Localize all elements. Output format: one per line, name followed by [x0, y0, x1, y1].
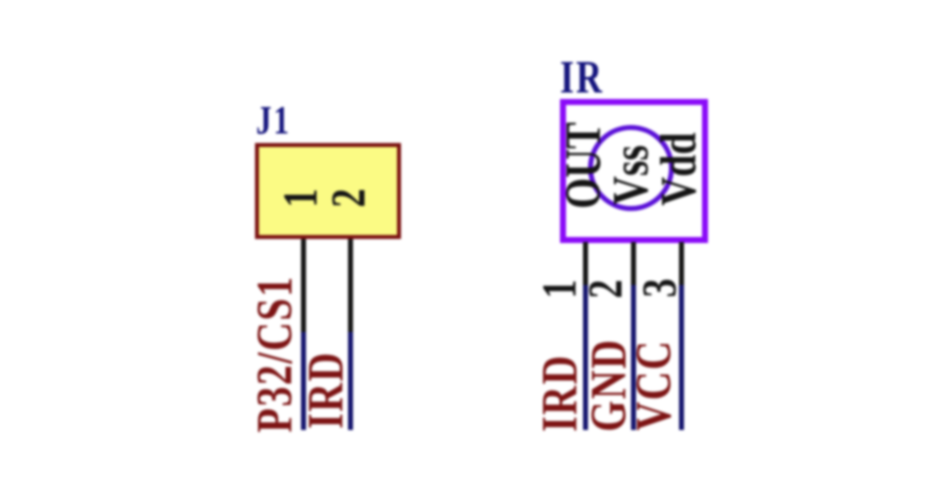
connector J1 designator: [256, 100, 291, 140]
IR sensor circle: [588, 125, 674, 211]
pin 1 of J1 (black segment): [301, 239, 306, 332]
pin 1 of IR (black segment): [583, 242, 588, 285]
pin name Vdd: [615, 119, 743, 219]
pin 2 of J1 (black segment): [348, 239, 353, 332]
pin name OUT: [518, 115, 647, 216]
wire net IRD (blue segment): [348, 332, 353, 430]
pin number 1 (J1): [277, 179, 326, 217]
IR sensor designator: [560, 54, 604, 100]
wire net IRD (blue segment, IR pin 1): [583, 285, 588, 430]
pin number 2 (IR): [582, 270, 631, 308]
pin number 2 (J1): [325, 179, 374, 217]
pin name Vss: [567, 125, 695, 225]
wire net VCC (blue segment, IR pin 3): [679, 285, 684, 430]
connector J1 body: [255, 143, 401, 239]
net label IRD (J1 pin 2): [298, 305, 354, 475]
IR sensor body: [560, 99, 708, 243]
pin 2 of IR (black segment): [631, 242, 636, 285]
pin number 3 (IR): [636, 269, 685, 307]
net label VCC: [626, 300, 682, 470]
net label GND: [581, 300, 637, 470]
pin 3 of IR (black segment): [679, 242, 684, 285]
wire net GND (blue segment, IR pin 2): [631, 285, 636, 430]
net label P32/CS1: [247, 269, 303, 439]
net label IRD (IR pin 1): [532, 308, 588, 478]
pin number 1 (IR): [536, 270, 585, 308]
wire net P32/CS1 (blue segment): [301, 332, 306, 430]
